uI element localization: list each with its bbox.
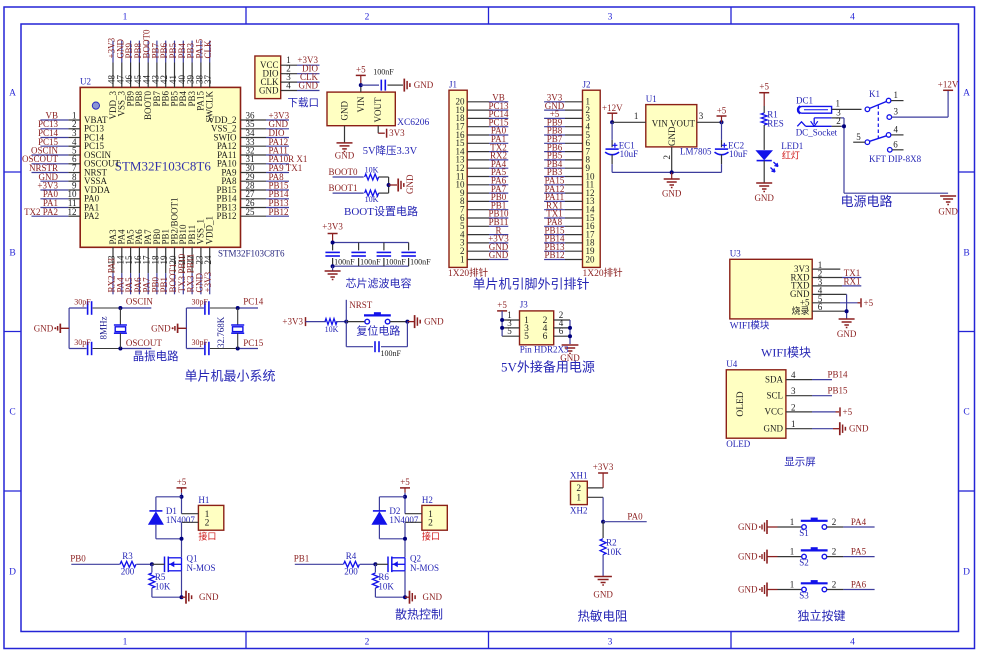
svg-text:GND: GND bbox=[335, 151, 355, 161]
svg-text:+5: +5 bbox=[864, 298, 874, 308]
svg-text:NRST: NRST bbox=[349, 300, 373, 310]
svg-text:U3: U3 bbox=[730, 249, 741, 259]
svg-text:2: 2 bbox=[365, 638, 370, 648]
svg-text:+5: +5 bbox=[356, 64, 366, 74]
svg-text:200: 200 bbox=[121, 567, 135, 577]
svg-text:1: 1 bbox=[460, 254, 465, 264]
svg-text:OLED: OLED bbox=[726, 439, 750, 449]
svg-text:单片机最小系统: 单片机最小系统 bbox=[184, 369, 275, 384]
svg-text:TX2 PA2: TX2 PA2 bbox=[24, 207, 58, 217]
svg-text:5V降压3.3V: 5V降压3.3V bbox=[363, 144, 418, 157]
svg-text:VDD_1: VDD_1 bbox=[205, 216, 215, 245]
svg-text:D: D bbox=[963, 568, 970, 578]
svg-text:CLK: CLK bbox=[203, 40, 213, 59]
svg-text:STM32F103C8T6: STM32F103C8T6 bbox=[218, 249, 285, 259]
svg-text:+5: +5 bbox=[400, 477, 410, 487]
svg-text:4: 4 bbox=[850, 13, 855, 23]
svg-text:H2: H2 bbox=[422, 495, 433, 505]
svg-text:热敏电阻: 热敏电阻 bbox=[577, 609, 628, 624]
svg-text:+5: +5 bbox=[177, 477, 187, 487]
svg-text:PB12: PB12 bbox=[544, 250, 564, 260]
svg-text:100nF: 100nF bbox=[385, 257, 406, 266]
svg-text:B: B bbox=[9, 249, 15, 259]
svg-text:GND: GND bbox=[938, 207, 958, 217]
svg-text:U4: U4 bbox=[726, 359, 737, 369]
svg-text:1: 1 bbox=[790, 580, 795, 590]
svg-text:32.768K: 32.768K bbox=[216, 316, 226, 348]
svg-text:散热控制: 散热控制 bbox=[395, 607, 443, 622]
svg-text:10K: 10K bbox=[325, 325, 339, 334]
svg-text:GND: GND bbox=[738, 585, 758, 595]
svg-text:10K: 10K bbox=[606, 547, 622, 557]
svg-text:3: 3 bbox=[699, 111, 704, 121]
svg-text:12: 12 bbox=[68, 207, 77, 217]
svg-text:10uF: 10uF bbox=[729, 149, 748, 159]
svg-text:SDA: SDA bbox=[765, 374, 784, 384]
svg-text:RX1: RX1 bbox=[843, 276, 860, 286]
svg-text:R5: R5 bbox=[155, 572, 166, 582]
svg-text:4: 4 bbox=[894, 125, 899, 135]
svg-text:烧录: 烧录 bbox=[791, 305, 809, 316]
svg-text:24: 24 bbox=[203, 255, 213, 265]
svg-text:+5: +5 bbox=[717, 106, 727, 116]
svg-text:S1: S1 bbox=[799, 528, 809, 538]
svg-text:+5: +5 bbox=[497, 300, 507, 310]
svg-text:PB12: PB12 bbox=[269, 207, 289, 217]
svg-text:J3: J3 bbox=[520, 300, 529, 310]
svg-text:+12V: +12V bbox=[938, 79, 959, 89]
svg-text:5: 5 bbox=[507, 326, 512, 336]
svg-text:GND: GND bbox=[199, 592, 219, 602]
svg-text:PB1: PB1 bbox=[294, 553, 310, 563]
svg-text:N-MOS: N-MOS bbox=[410, 563, 439, 573]
svg-text:OLED: OLED bbox=[736, 391, 746, 416]
svg-text:BOOT设置电路: BOOT设置电路 bbox=[344, 205, 418, 218]
svg-text:A: A bbox=[9, 89, 16, 99]
svg-text:DC_Socket: DC_Socket bbox=[796, 128, 838, 138]
svg-text:KFT DIP-8X8: KFT DIP-8X8 bbox=[869, 154, 922, 164]
svg-text:100nF: 100nF bbox=[334, 257, 355, 266]
svg-text:VCC: VCC bbox=[764, 407, 783, 417]
svg-text:37: 37 bbox=[203, 75, 213, 85]
svg-text:GND: GND bbox=[259, 85, 279, 95]
svg-text:GND: GND bbox=[34, 324, 54, 334]
svg-text:单片机引脚外引排针: 单片机引脚外引排针 bbox=[472, 277, 589, 292]
svg-text:10uF: 10uF bbox=[620, 149, 639, 159]
svg-text:H1: H1 bbox=[198, 495, 209, 505]
svg-text:1N4007: 1N4007 bbox=[389, 515, 418, 525]
svg-text:8MHz: 8MHz bbox=[99, 316, 109, 339]
svg-text:5: 5 bbox=[856, 132, 861, 142]
svg-text:OSCIN: OSCIN bbox=[126, 297, 154, 307]
svg-text:下载口: 下载口 bbox=[288, 97, 320, 109]
svg-text:接口: 接口 bbox=[198, 531, 216, 542]
svg-text:GND: GND bbox=[299, 81, 319, 91]
svg-text:N-MOS: N-MOS bbox=[187, 563, 216, 573]
svg-text:芯片滤波电容: 芯片滤波电容 bbox=[346, 276, 412, 290]
svg-text:6: 6 bbox=[893, 139, 898, 149]
svg-text:VOUT: VOUT bbox=[373, 97, 383, 122]
svg-text:30pF: 30pF bbox=[74, 338, 91, 347]
svg-text:Pin HDR2X3: Pin HDR2X3 bbox=[520, 345, 569, 355]
svg-text:GND: GND bbox=[667, 126, 677, 146]
svg-text:S2: S2 bbox=[799, 558, 809, 568]
svg-text:独立按键: 独立按键 bbox=[797, 608, 845, 623]
svg-text:PC14: PC14 bbox=[243, 297, 264, 307]
svg-text:RES: RES bbox=[767, 118, 784, 128]
svg-text:25: 25 bbox=[246, 207, 256, 217]
svg-text:DC1: DC1 bbox=[796, 96, 813, 106]
svg-text:红灯: 红灯 bbox=[782, 150, 800, 161]
svg-text:100nF: 100nF bbox=[410, 257, 431, 266]
svg-text:30pF: 30pF bbox=[192, 298, 209, 307]
svg-text:2: 2 bbox=[791, 402, 796, 412]
svg-text:GND: GND bbox=[340, 101, 350, 121]
svg-text:XH1: XH1 bbox=[570, 471, 588, 481]
svg-text:4: 4 bbox=[850, 638, 855, 648]
svg-text:PB12: PB12 bbox=[216, 211, 236, 221]
svg-text:WIFI模块: WIFI模块 bbox=[761, 346, 811, 360]
svg-text:R6: R6 bbox=[378, 572, 389, 582]
svg-text:GND: GND bbox=[424, 317, 444, 327]
svg-text:PB0: PB0 bbox=[70, 553, 86, 563]
svg-text:SCL: SCL bbox=[766, 391, 783, 401]
svg-text:XC6206: XC6206 bbox=[397, 118, 429, 128]
svg-text:GND: GND bbox=[489, 250, 509, 260]
svg-text:GND: GND bbox=[423, 592, 443, 602]
svg-text:100nF: 100nF bbox=[360, 257, 381, 266]
svg-text:GND: GND bbox=[151, 324, 171, 334]
svg-text:3: 3 bbox=[791, 386, 796, 396]
svg-text:PA5: PA5 bbox=[851, 547, 867, 557]
svg-text:10K: 10K bbox=[155, 582, 171, 592]
svg-text:J2: J2 bbox=[583, 80, 591, 90]
svg-text:电源电路: 电源电路 bbox=[840, 194, 892, 209]
svg-text:+3V3: +3V3 bbox=[203, 271, 213, 292]
svg-text:C: C bbox=[963, 408, 969, 418]
svg-text:+3V3: +3V3 bbox=[322, 222, 343, 232]
svg-text:1N4007: 1N4007 bbox=[166, 515, 195, 525]
svg-text:3V3: 3V3 bbox=[389, 128, 405, 138]
svg-text:GND: GND bbox=[738, 522, 758, 532]
svg-text:1: 1 bbox=[123, 638, 128, 648]
svg-text:SWCLK: SWCLK bbox=[205, 90, 215, 122]
svg-text:XH2: XH2 bbox=[570, 506, 588, 516]
svg-text:J1: J1 bbox=[449, 80, 457, 90]
svg-text:2: 2 bbox=[832, 547, 837, 557]
svg-text:D: D bbox=[9, 568, 16, 578]
svg-text:R2: R2 bbox=[606, 537, 617, 547]
svg-text:GND: GND bbox=[764, 424, 784, 434]
svg-text:1: 1 bbox=[790, 547, 795, 557]
svg-text:PB14: PB14 bbox=[828, 370, 849, 380]
svg-text:3: 3 bbox=[608, 13, 613, 23]
svg-text:GND: GND bbox=[593, 590, 613, 600]
svg-text:S3: S3 bbox=[799, 591, 809, 601]
svg-text:4: 4 bbox=[791, 370, 796, 380]
svg-text:U2: U2 bbox=[80, 77, 91, 87]
svg-text:晶振电路: 晶振电路 bbox=[133, 349, 179, 363]
svg-text:2: 2 bbox=[832, 580, 837, 590]
svg-text:GND: GND bbox=[405, 174, 415, 194]
svg-text:PA0: PA0 bbox=[627, 511, 643, 521]
svg-text:2: 2 bbox=[365, 13, 370, 23]
svg-text:BOOT1: BOOT1 bbox=[329, 183, 358, 193]
svg-text:4: 4 bbox=[286, 81, 291, 91]
svg-text:1: 1 bbox=[790, 517, 795, 527]
svg-text:A: A bbox=[963, 89, 970, 99]
svg-text:1: 1 bbox=[123, 13, 128, 23]
svg-text:2: 2 bbox=[832, 517, 837, 527]
svg-text:VIN: VIN bbox=[356, 96, 366, 112]
svg-text:1: 1 bbox=[836, 99, 841, 109]
svg-text:6: 6 bbox=[559, 326, 564, 336]
svg-text:BOOT0: BOOT0 bbox=[329, 167, 358, 177]
svg-text:100nF: 100nF bbox=[381, 349, 402, 358]
svg-text:+3V3: +3V3 bbox=[593, 462, 614, 472]
svg-text:3: 3 bbox=[894, 107, 899, 117]
svg-text:接口: 接口 bbox=[422, 531, 440, 542]
svg-text:20: 20 bbox=[586, 254, 596, 264]
svg-text:GND: GND bbox=[754, 193, 774, 203]
svg-text:+3V3: +3V3 bbox=[282, 317, 303, 327]
svg-text:5V外接备用电源: 5V外接备用电源 bbox=[501, 360, 595, 375]
svg-text:30pF: 30pF bbox=[74, 298, 91, 307]
svg-text:6: 6 bbox=[543, 332, 548, 342]
svg-text:OSCOUT: OSCOUT bbox=[126, 338, 163, 348]
svg-text:PB15: PB15 bbox=[828, 386, 849, 396]
svg-text:GND: GND bbox=[414, 80, 434, 90]
svg-text:GND: GND bbox=[837, 329, 857, 339]
svg-text:U1: U1 bbox=[646, 94, 657, 104]
svg-text:10K: 10K bbox=[365, 195, 379, 204]
svg-text:R3: R3 bbox=[122, 551, 133, 561]
svg-text:1: 1 bbox=[634, 111, 639, 121]
svg-text:1: 1 bbox=[791, 419, 796, 429]
svg-text:PA4: PA4 bbox=[851, 517, 867, 527]
svg-text:K1: K1 bbox=[869, 89, 880, 99]
svg-text:2: 2 bbox=[205, 519, 210, 529]
svg-text:+5: +5 bbox=[843, 407, 853, 417]
svg-text:PA6: PA6 bbox=[851, 580, 867, 590]
svg-text:STM32F103C8T6: STM32F103C8T6 bbox=[115, 159, 212, 174]
svg-text:1: 1 bbox=[894, 90, 899, 100]
svg-text:10K: 10K bbox=[365, 165, 379, 174]
svg-text:WIFI模块: WIFI模块 bbox=[730, 320, 770, 332]
svg-text:3: 3 bbox=[608, 638, 613, 648]
svg-text:30pF: 30pF bbox=[192, 338, 209, 347]
svg-text:B: B bbox=[963, 249, 969, 259]
svg-text:GND: GND bbox=[662, 189, 682, 199]
svg-text:显示屏: 显示屏 bbox=[784, 456, 816, 468]
svg-text:LM7805: LM7805 bbox=[680, 147, 712, 157]
svg-text:GND: GND bbox=[849, 424, 869, 434]
svg-text:1: 1 bbox=[576, 493, 581, 503]
svg-text:R4: R4 bbox=[346, 551, 357, 561]
svg-text:GND: GND bbox=[738, 552, 758, 562]
svg-text:C: C bbox=[9, 408, 15, 418]
svg-text:2: 2 bbox=[662, 155, 672, 160]
svg-text:200: 200 bbox=[344, 567, 358, 577]
svg-text:5: 5 bbox=[524, 332, 529, 342]
svg-text:10K: 10K bbox=[378, 582, 394, 592]
svg-text:复位电路: 复位电路 bbox=[356, 324, 400, 338]
svg-text:PC15: PC15 bbox=[243, 338, 264, 348]
svg-text:+12V: +12V bbox=[602, 103, 623, 113]
svg-text:PA2: PA2 bbox=[84, 211, 99, 221]
svg-text:100nF: 100nF bbox=[373, 68, 394, 77]
svg-text:2: 2 bbox=[428, 519, 433, 529]
svg-text:2: 2 bbox=[836, 116, 841, 126]
svg-text:+5: +5 bbox=[759, 82, 769, 92]
